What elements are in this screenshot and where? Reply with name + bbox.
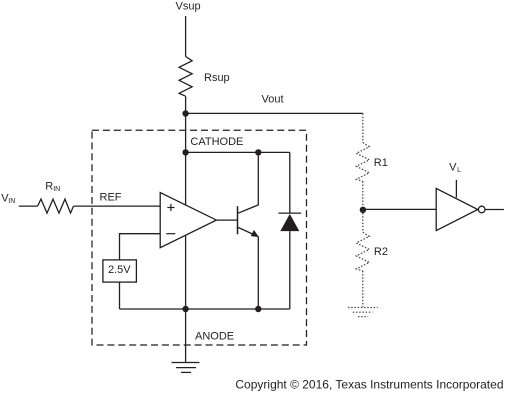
svg-text:V: V: [449, 161, 457, 173]
device boundary TL431 (dashed box): [92, 130, 307, 345]
node cathode junction right: [255, 149, 261, 155]
resistor RIN: [38, 199, 74, 213]
wire R1 to tap (dotted): [362, 181, 364, 210]
svg-text:R2: R2: [374, 246, 388, 258]
svg-text:Rsup: Rsup: [204, 72, 230, 84]
svg-text:IN: IN: [8, 198, 15, 205]
node cathode junction left: [182, 149, 188, 155]
ground: [172, 309, 200, 372]
svg-text:IN: IN: [53, 186, 60, 193]
wire tap to inverter input: [363, 208, 436, 210]
ground divider (dotted): [348, 308, 378, 317]
diode D1 (anode-cathode protection): [279, 152, 302, 309]
svg-text:2.5V: 2.5V: [108, 264, 131, 276]
wire cathode rail: [186, 151, 290, 153]
node Vout junction: [182, 110, 188, 116]
wire tap to R2 (dotted): [362, 210, 364, 232]
voltage reference 2.5V: [103, 260, 136, 282]
wire Rsup to anode rail (main cathode vertical): [185, 96, 187, 309]
node anode junction right: [255, 306, 261, 312]
op-amp U1 (error amplifier): [160, 193, 216, 248]
wire divider top (dotted): [362, 113, 364, 142]
svg-text:REF: REF: [100, 191, 122, 203]
net label VIN: [1, 193, 15, 205]
wire VL supply to inverter: [455, 180, 457, 198]
wire anode rail: [120, 308, 290, 310]
svg-text:ANODE: ANODE: [195, 331, 234, 343]
svg-text:Vout: Vout: [262, 94, 284, 106]
transistor Q1 (NPN): [238, 152, 259, 309]
node divider tap: [360, 207, 366, 213]
wire op-amp output to base: [216, 219, 237, 221]
svg-text:R: R: [45, 181, 53, 193]
svg-text:Copyright © 2016, Texas Instru: Copyright © 2016, Texas Instruments Inco…: [235, 377, 503, 391]
node anode junction left: [182, 306, 188, 312]
svg-text:R1: R1: [374, 157, 388, 169]
inverter gate U2: [436, 188, 478, 230]
net label VL: [449, 161, 461, 174]
resistor Rsup: [179, 57, 192, 97]
wire Vsup to Rsup: [185, 16, 187, 57]
wire inverter output: [485, 209, 504, 211]
resistor R2 (dotted): [356, 232, 369, 271]
svg-text:L: L: [457, 167, 461, 174]
wire RIN to REF pin: [74, 205, 161, 207]
resistor R1 (dotted): [356, 143, 369, 182]
wire Vout horizontal: [186, 112, 363, 114]
wire R2 to ground (dotted): [362, 271, 364, 307]
svg-text:CATHODE: CATHODE: [190, 136, 243, 148]
wire reference to anode rail: [119, 282, 121, 309]
svg-text:Vsup: Vsup: [176, 0, 201, 12]
label RIN: [45, 181, 60, 194]
wire VIN to RIN: [19, 205, 38, 207]
wire inverting input to reference: [120, 234, 161, 260]
